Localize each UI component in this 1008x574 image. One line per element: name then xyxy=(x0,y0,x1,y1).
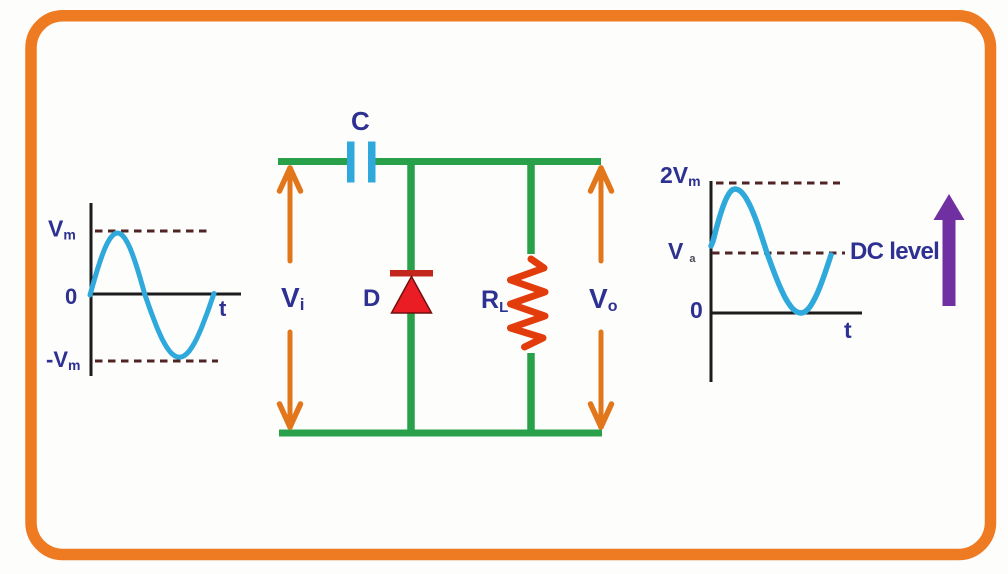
svg-text:0: 0 xyxy=(690,297,703,323)
wire diode branch lower xyxy=(407,312,415,433)
DC shift arrow xyxy=(934,194,965,306)
resistor RL xyxy=(511,259,546,347)
wire bottom rail xyxy=(279,430,602,437)
capacitor C xyxy=(347,142,376,183)
svg-text:DC level: DC level xyxy=(850,238,939,265)
-Vm dashed line xyxy=(95,360,218,363)
2Vm dashed line xyxy=(716,182,840,185)
wire resistor branch lower xyxy=(527,353,535,433)
wire top rail left segment xyxy=(278,158,348,165)
svg-text:D: D xyxy=(363,285,380,312)
arrow Vo down xyxy=(591,332,612,427)
output sine wave xyxy=(711,189,831,313)
diode D xyxy=(390,270,433,313)
svg-text:t: t xyxy=(219,296,227,321)
wire diode branch upper xyxy=(407,158,415,271)
input sine wave xyxy=(90,233,214,357)
wire resistor branch upper xyxy=(527,158,535,254)
DC level dashed line xyxy=(712,252,845,255)
arrow Vi down xyxy=(280,332,301,427)
arrow Vo up xyxy=(591,168,612,261)
Vm dashed line xyxy=(95,230,207,233)
input waveform axes xyxy=(89,203,241,376)
output waveform axes xyxy=(710,181,862,382)
svg-text:C: C xyxy=(351,106,370,136)
svg-text:0: 0 xyxy=(65,284,77,309)
svg-text:t: t xyxy=(844,317,852,343)
wire top rail right segment xyxy=(374,158,601,165)
arrow Vi up xyxy=(280,168,301,261)
